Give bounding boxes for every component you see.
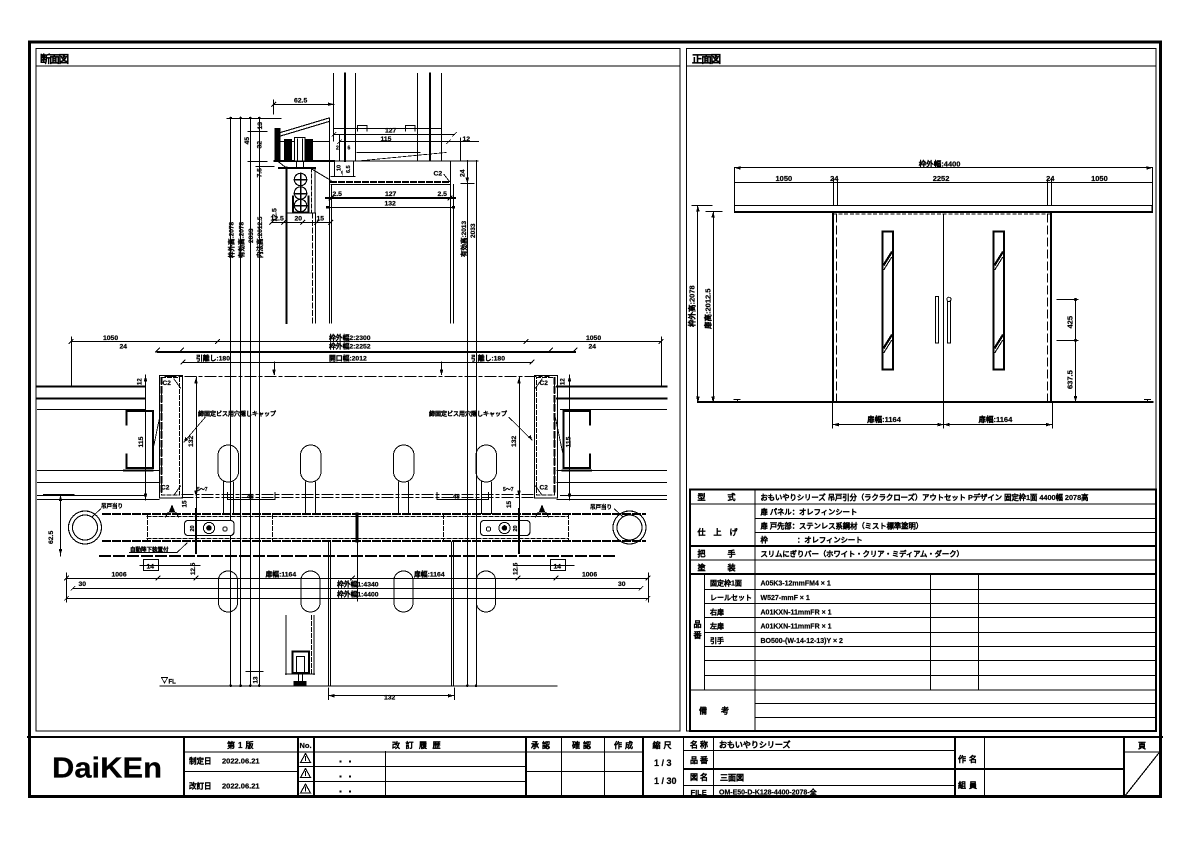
hanger rail assembly [275,128,281,162]
svg-text:2033: 2033 [470,223,477,238]
svg-text:締固定ビス用穴隠しキャップ: 締固定ビス用穴隠しキャップ [429,410,508,418]
svg-text:正面図: 正面図 [692,54,721,66]
svg-text:BO500-(W-14-12-13)Y × 2: BO500-(W-14-12-13)Y × 2 [761,638,844,645]
第1版 rows [184,771,298,773]
left panel border [36,49,680,732]
svg-text:2: 2 [336,146,339,152]
svg-text:吊戸当り: 吊戸当り [101,502,123,510]
svg-text:C2: C2 [540,380,549,387]
svg-text:24: 24 [120,343,128,350]
svg-text:品番: 品番 [690,755,710,765]
dash-dot between posts [165,376,549,378]
svg-text:引離し:180: 引離し:180 [471,353,505,362]
132 dim verticals [196,377,198,508]
svg-text:枠外幅2:2300: 枠外幅2:2300 [328,333,371,342]
svg-text:仕上げ: 仕上げ [697,527,746,537]
floor line [160,685,557,687]
approve row split [526,771,644,773]
verticals to floor [329,542,454,686]
slot columns lower band [218,571,495,612]
door top rail C2 [334,160,478,162]
horizontal rows [690,503,1156,505]
svg-text:7.5: 7.5 [257,168,264,178]
svg-text:45: 45 [244,137,251,145]
svg-text:扉幅:1164: 扉幅:1164 [266,570,297,579]
svg-text:14: 14 [554,563,562,570]
revision rows [298,766,526,768]
left height dims [697,206,699,403]
svg-text:2033: 2033 [248,228,255,243]
svg-text:W527-mmF × 1: W527-mmF × 1 [761,595,810,602]
svg-text:作名: 作名 [958,754,980,764]
svg-text:レールセット: レールセット [710,594,752,602]
svg-text:1 / 3: 1 / 3 [654,758,672,768]
svg-text:改訂日: 改訂日 [189,781,212,791]
svg-text:30: 30 [79,581,87,588]
svg-text:2252: 2252 [933,174,950,183]
mid verticals [312,213,314,323]
wall lines left [38,387,667,399]
svg-text:枠外高:2078: 枠外高:2078 [687,285,697,328]
svg-text:三面図: 三面図 [720,774,744,783]
svg-text:132: 132 [188,435,195,447]
svg-text:有効高:2013: 有効高:2013 [459,220,468,257]
C channel studs [127,411,154,468]
ceiling line [334,128,442,130]
svg-text:型式: 型式 [698,492,758,502]
svg-text:DaiKEn: DaiKEn [52,753,162,785]
svg-text:枠外幅2:2252: 枠外幅2:2252 [328,341,371,350]
svg-text:2022.06.21: 2022.06.21 [222,782,260,791]
glass lites [883,232,1004,370]
svg-text:品: 品 [694,620,702,629]
svg-text:把手: 把手 [698,549,758,559]
svg-text:スリムにぎりバー（ホワイト・クリア・ミディアム・ダーク）: スリムにぎりバー（ホワイト・クリア・ミディアム・ダーク） [761,550,964,559]
right side dims 425 / 637.5 [1057,299,1078,301]
svg-text:改訂履歴: 改訂履歴 [392,740,446,750]
svg-text:枠外幅:4400: 枠外幅:4400 [918,158,961,168]
top rail bar [735,206,1153,212]
svg-text:1050: 1050 [1091,174,1108,183]
svg-text:確認: 確認 [572,740,594,750]
svg-text:C2: C2 [434,171,443,178]
ceiling clips [358,126,416,132]
svg-text:C2: C2 [161,485,170,492]
bolt neck [297,162,304,168]
slot columns mid band [218,445,497,482]
svg-text:24: 24 [460,169,467,177]
left dim stack [227,118,281,120]
svg-text:C2: C2 [163,380,172,387]
svg-text:枠: 枠 [760,536,769,545]
door top dashed [833,213,1051,215]
svg-text:第1版: 第1版 [227,740,256,750]
page diagonal [1125,753,1160,797]
svg-text:1050: 1050 [103,335,118,342]
svg-text:132: 132 [511,435,518,447]
svg-text:15: 15 [182,500,189,508]
lower dashed line [100,555,615,557]
svg-text:引離し:180: 引離し:180 [196,353,230,362]
revision triangles [301,754,311,794]
svg-text:備考: 備考 [699,706,743,716]
right panel border [687,49,1157,732]
svg-text:名称: 名称 [690,740,710,750]
svg-text:吊戸当り: 吊戸当り [590,503,612,511]
spec table frame [690,490,1156,732]
svg-text:2022.06.21: 2022.06.21 [222,757,260,766]
svg-text:2.5: 2.5 [438,191,448,198]
svg-text:30: 30 [618,581,626,588]
svg-text:左扉: 左扉 [709,622,724,631]
svg-text:有効高:2078: 有効高:2078 [237,221,246,258]
vertical dividers [183,737,185,797]
svg-text:扉幅:1164: 扉幅:1164 [414,570,445,579]
content col dividers (part no section) [930,575,932,690]
svg-text:作成: 作成 [614,740,636,750]
svg-text:断面図: 断面図 [40,53,69,66]
svg-text:1006: 1006 [582,572,597,579]
svg-text:A01KXN-11mmFR × 1: A01KXN-11mmFR × 1 [761,609,832,616]
svg-text:扉幅:1164: 扉幅:1164 [978,414,1014,424]
svg-text:5〜7: 5〜7 [197,487,208,493]
name col rows [684,750,955,752]
svg-text:637.5: 637.5 [1065,370,1074,389]
top thick line of title block [28,736,1162,738]
svg-text:頁: 頁 [1138,742,1146,751]
svg-text:5〜7: 5〜7 [503,487,514,493]
132 bottom dim [328,688,330,700]
svg-text:扉 戸先部：ステンレス系鋼材（ミスト標準塗明）: 扉 戸先部：ステンレス系鋼材（ミスト標準塗明） [761,522,924,531]
floor guide assembly [285,616,287,675]
header row line [184,751,643,753]
svg-text:115: 115 [138,436,145,447]
svg-text:10: 10 [337,165,343,171]
svg-text:1050: 1050 [776,174,793,183]
svg-text:FL: FL [169,680,177,686]
svg-text:OM-E50-D-K128-4400-2078-全: OM-E50-D-K128-4400-2078-全 [719,788,818,797]
svg-text:FILE: FILE [691,788,707,797]
svg-text:12.5: 12.5 [513,562,520,575]
door edges [832,212,834,402]
svg-text:図名: 図名 [690,772,710,782]
svg-text:おもいやりシリーズ 吊戸引分（ラクラクローズ）アウトセット: おもいやりシリーズ 吊戸引分（ラクラクローズ）アウトセット Pデザイン 固定枠1… [761,493,1089,502]
svg-text:扉 パネル：オレフィンシート: 扉 パネル：オレフィンシート [761,508,858,517]
svg-text:20: 20 [295,216,303,223]
handle plates [185,521,235,536]
svg-text:C2: C2 [540,485,549,492]
svg-text:制定日: 制定日 [189,756,212,766]
svg-text:扉高:2012.5: 扉高:2012.5 [702,289,712,330]
posts [160,376,183,499]
svg-text:右扉: 右扉 [709,607,724,616]
svg-text:1 / 30: 1 / 30 [654,776,677,786]
svg-text:枠外高:2078: 枠外高:2078 [227,221,236,258]
svg-text:A01KXN-11mmFR × 1: A01KXN-11mmFR × 1 [761,624,832,631]
svg-text:6.5: 6.5 [346,165,352,173]
svg-text:127: 127 [385,191,397,198]
svg-text:：オレフィンシート: ：オレフィンシート [797,536,863,545]
floor tee marks [734,400,1151,403]
svg-text:13: 13 [253,676,260,684]
svg-text:1050: 1050 [586,335,601,342]
svg-text:62.5: 62.5 [294,98,307,105]
svg-text:2.5: 2.5 [333,191,343,198]
upper wall verticals [334,74,442,162]
revision dots [339,760,351,792]
svg-text:承認: 承認 [531,740,553,750]
svg-text:扉幅:1164: 扉幅:1164 [866,414,902,424]
svg-text:固定枠1面: 固定枠1面 [710,579,742,588]
svg-text:127: 127 [385,128,397,135]
svg-text:425: 425 [1065,316,1074,329]
svg-text:62.5: 62.5 [48,531,55,544]
svg-text:締固定ビス用穴隠しキャップ: 締固定ビス用穴隠しキャップ [198,410,277,418]
svg-text:No.: No. [300,741,312,750]
svg-text:15: 15 [506,500,513,508]
svg-text:開口幅:2012: 開口幅:2012 [329,353,367,362]
svg-text:12: 12 [561,378,567,385]
svg-text:引手: 引手 [710,636,724,645]
svg-text:12.5: 12.5 [190,562,197,575]
floor line [698,401,1153,403]
svg-text:132: 132 [384,695,396,702]
svg-text:1006: 1006 [112,572,127,579]
screws [294,173,306,211]
svg-text:A05K3-12mmFM4 × 1: A05K3-12mmFM4 × 1 [761,581,831,588]
svg-text:塗装: 塗装 [698,563,758,573]
svg-text:14: 14 [147,563,155,570]
svg-text:132: 132 [385,201,397,208]
svg-text:6: 6 [348,146,351,152]
bottom door width dims [833,403,1053,428]
svg-text:番: 番 [693,630,703,640]
cut marks [169,505,176,513]
svg-text:縮尺: 縮尺 [653,740,675,750]
hanger bracket [278,162,287,169]
stop verticals [195,509,197,553]
svg-text:32: 32 [257,141,264,149]
svg-text:内法高:2012.5: 内法高:2012.5 [255,216,264,258]
svg-text:おもいやりシリーズ: おもいやりシリーズ [719,740,790,750]
svg-text:13: 13 [257,122,264,130]
svg-text:組員: 組員 [958,780,980,790]
svg-text:115: 115 [566,436,573,447]
extension lines down to rail [735,168,1153,206]
svg-text:12: 12 [138,378,144,385]
handles [936,297,952,344]
svg-text:24: 24 [589,343,597,350]
